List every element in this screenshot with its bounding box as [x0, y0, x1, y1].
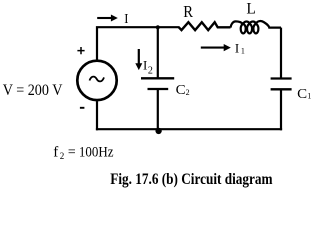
svg-text:1: 1	[307, 92, 311, 101]
svg-text:2: 2	[148, 66, 153, 77]
svg-text:f: f	[53, 145, 58, 161]
svg-text:I: I	[124, 12, 128, 27]
svg-text:1: 1	[241, 47, 245, 56]
svg-text:2: 2	[60, 151, 64, 161]
svg-text:2: 2	[186, 88, 190, 97]
svg-text:100Hz: 100Hz	[79, 145, 114, 161]
svg-text:I: I	[235, 41, 239, 56]
svg-text:Fig. 17.6 (b) Circuit diagram: Fig. 17.6 (b) Circuit diagram	[110, 171, 272, 188]
svg-text:R: R	[183, 2, 194, 21]
svg-text:C: C	[176, 83, 186, 98]
svg-text:V = 200 V: V = 200 V	[3, 82, 64, 99]
svg-text:L: L	[246, 0, 255, 17]
svg-text:I: I	[143, 58, 147, 73]
svg-text:C: C	[297, 87, 307, 102]
svg-text:=: =	[68, 145, 76, 161]
